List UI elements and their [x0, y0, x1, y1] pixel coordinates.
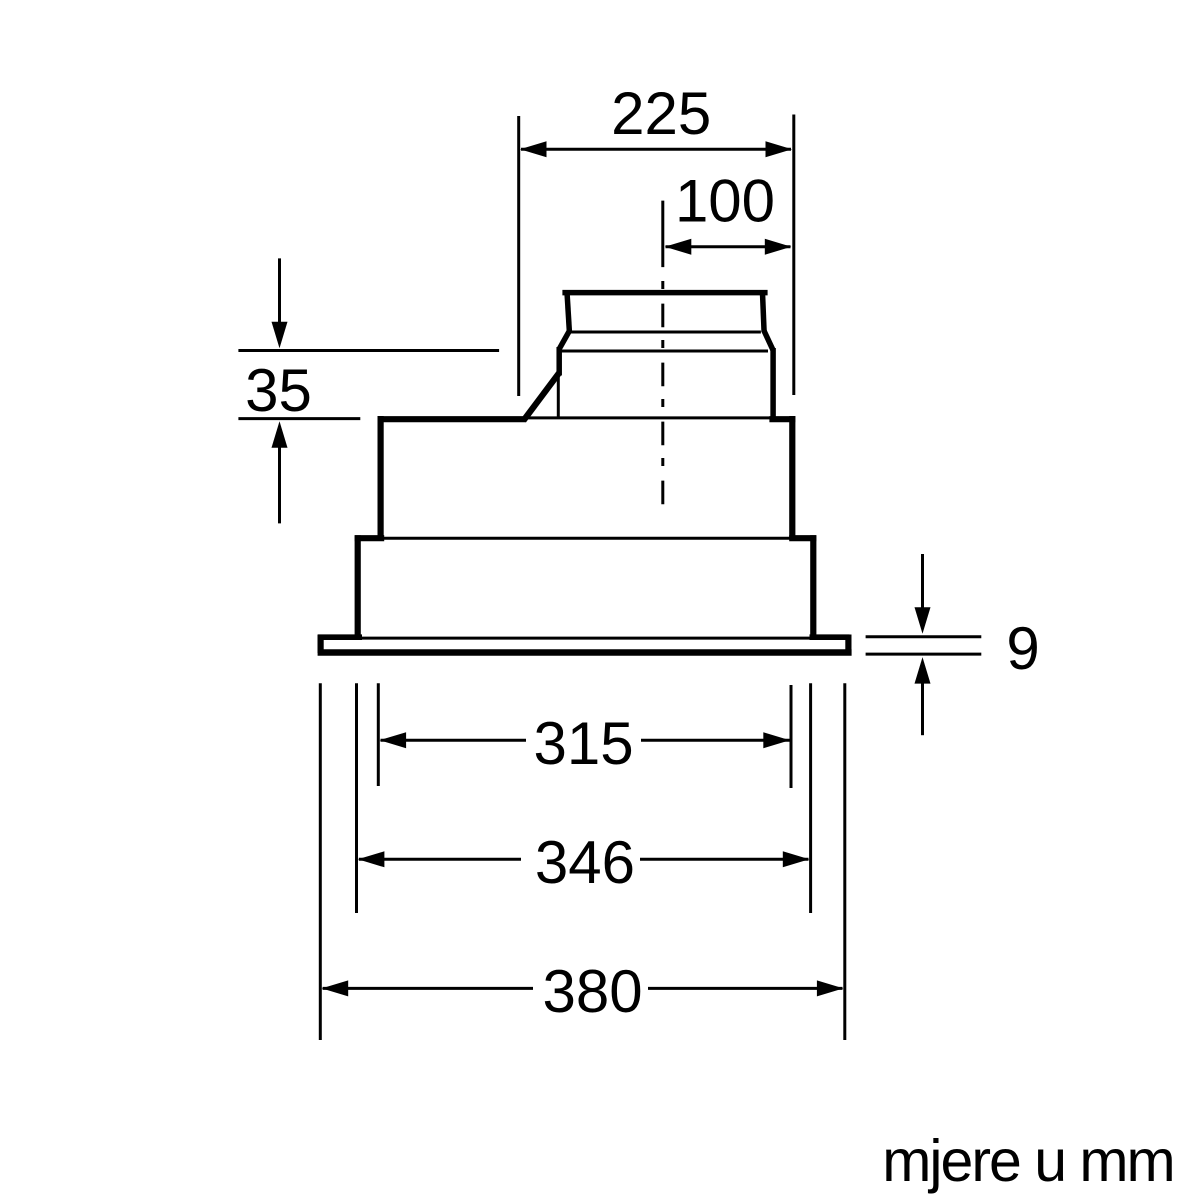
dimension 9 lower reference line: [866, 653, 982, 656]
dimension 100 extension segment (centerline top): [661, 201, 664, 268]
dimension 346 line right segment: [640, 858, 809, 861]
hood flange left end cap: [318, 635, 324, 654]
svg-text:225: 225: [611, 80, 711, 147]
svg-text:346: 346: [535, 829, 635, 896]
dimension 346 left arrowhead: [358, 851, 385, 867]
upper housing top face left thick segment: [378, 416, 526, 422]
middle housing box right edge: [810, 535, 816, 636]
dimension 100 left arrowhead: [665, 239, 692, 255]
hood flange right end cap: [845, 635, 851, 654]
dimension 9 lower arrowhead: [915, 657, 931, 684]
hood flange top edge hidden middle segment: [362, 637, 810, 640]
duct collar base right edge: [770, 348, 776, 420]
dimension 9 upper arrowhead: [915, 607, 931, 634]
dimension 225 left arrowhead: [520, 141, 547, 157]
svg-text:35: 35: [245, 357, 312, 424]
dimension 35 lower arrow shaft: [278, 446, 281, 523]
middle housing top step left visible segment: [355, 535, 385, 541]
dimension 380 right extension line: [843, 683, 846, 1040]
dimension 315 right arrowhead: [763, 732, 790, 748]
dimension 35 lower arrowhead: [272, 421, 288, 448]
middle housing box left edge: [355, 535, 361, 636]
duct collar base left hidden edge: [557, 373, 560, 418]
dimension 9 lower arrow shaft: [921, 681, 924, 735]
dimension 100 right arrowhead: [765, 239, 792, 255]
duct collar top cap: [562, 290, 767, 296]
dimension 225 left extension line: [517, 116, 520, 396]
dimension 9 upper arrow shaft: [921, 554, 924, 610]
dimension 225 right arrowhead: [766, 141, 793, 157]
upper housing top face right thick segment: [769, 416, 795, 422]
dimension 380 line left segment: [323, 987, 533, 990]
duct collar flare bottom inner line: [562, 350, 769, 353]
hood flange bottom plate: [318, 649, 852, 656]
upper housing left edge: [378, 416, 384, 539]
dimension 315 left extension line: [377, 683, 380, 786]
dimension 380 left arrowhead: [322, 980, 349, 996]
upper housing top face sloped edge to collar: [524, 373, 559, 420]
upper housing top face hidden middle segment: [526, 416, 770, 419]
dimension 225 line: [521, 148, 791, 151]
svg-text:380: 380: [543, 958, 643, 1025]
dimension 380 right arrowhead: [817, 980, 844, 996]
dimension 346 right arrowhead: [783, 851, 810, 867]
duct collar stub left edge: [567, 291, 570, 333]
duct collar left flare edge: [559, 331, 569, 349]
duct collar stub bottom inner line: [571, 331, 761, 334]
middle housing top edge hidden middle segment: [384, 537, 790, 540]
hood flange top edge right visible segment: [810, 634, 850, 640]
dimension 9 upper reference line: [866, 635, 982, 638]
dimension 315 right extension line: [790, 685, 793, 788]
dimension 346 left extension line: [355, 683, 358, 913]
dimension 35 upper reference line: [238, 349, 499, 352]
dimension 35 lower reference line: [238, 417, 360, 420]
dimension 35 upper arrowhead: [272, 322, 288, 349]
middle housing top step right visible segment: [789, 535, 816, 541]
duct collar right flare edge: [764, 331, 773, 350]
dimension 380 line right segment: [648, 987, 843, 990]
dimension 380 left extension line: [319, 683, 322, 1040]
dimension 346 line left segment: [359, 858, 521, 861]
hood flange top edge left visible segment: [318, 634, 362, 640]
dimension 315 line left segment: [381, 739, 527, 742]
svg-text:9: 9: [1006, 615, 1039, 682]
dimension 225 right extension line: [792, 115, 795, 396]
svg-text:100: 100: [675, 167, 775, 234]
svg-text:mjere u mm: mjere u mm: [882, 1128, 1173, 1194]
dimension 346 right extension line: [809, 683, 812, 913]
upper housing right edge: [789, 416, 795, 539]
dimension 315 line right segment: [641, 739, 790, 742]
dimension 100 line: [666, 245, 791, 248]
duct collar base left edge: [556, 347, 562, 376]
dimension 35 upper arrow shaft: [278, 258, 281, 325]
svg-text:315: 315: [534, 710, 634, 777]
vertical centerline of duct collar: [661, 281, 664, 510]
dimension 315 left arrowhead: [380, 732, 407, 748]
duct collar stub right edge: [762, 291, 764, 333]
